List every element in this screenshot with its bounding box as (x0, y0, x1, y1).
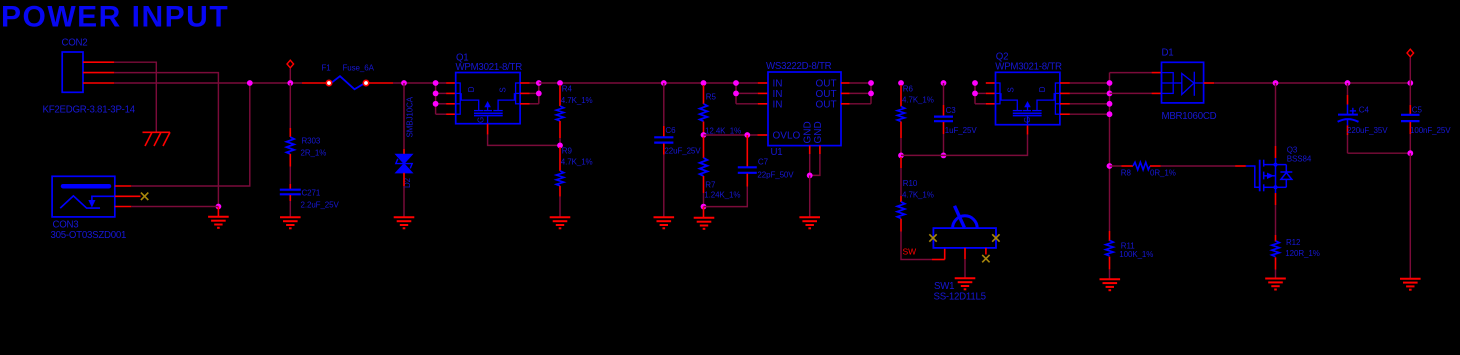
capacitor C271 (280, 184, 340, 210)
ground under R11 (1100, 279, 1121, 290)
wire fuse out red (369, 82, 394, 84)
svg-text:OUT: OUT (816, 89, 837, 100)
svg-text:R8: R8 (1121, 169, 1132, 178)
wire C4 bottom to C5 bottom (1348, 152, 1411, 154)
svg-text:SW1: SW1 (934, 281, 954, 292)
svg-text:GND: GND (803, 121, 814, 143)
svg-text:2R_1%: 2R_1% (301, 149, 327, 158)
svg-text:22pF_50V: 22pF_50V (757, 171, 794, 180)
svg-text:100K_1%: 100K_1% (1119, 250, 1153, 259)
svg-text:G: G (477, 117, 486, 123)
Q1 gate pin stub (487, 124, 489, 135)
svg-text:4.7K_1%: 4.7K_1% (561, 158, 593, 167)
power flag output (1407, 49, 1414, 57)
SW1 middle pin to ground (964, 248, 966, 259)
SW1 right pin no-connect (985, 248, 987, 255)
wire C5 bottom to ground (1409, 153, 1411, 278)
svg-text:305-OT03SZD001: 305-OT03SZD001 (51, 230, 127, 241)
svg-text:Q3: Q3 (1287, 146, 1298, 155)
resistor R11 (1106, 231, 1154, 279)
svg-text:120R_1%: 120R_1% (1285, 249, 1319, 258)
svg-text:R303: R303 (302, 137, 321, 146)
svg-text:WPM3021-8/TR: WPM3021-8/TR (456, 62, 523, 73)
U1 pin stubs right (841, 83, 850, 104)
node Q1 out (536, 80, 542, 86)
node output at C5 (1407, 80, 1413, 86)
resistor R5 (700, 85, 741, 136)
svg-text:MBR1060CD: MBR1060CD (1162, 111, 1217, 122)
node R7 bottom (701, 204, 707, 210)
svg-text:BSS84: BSS84 (1287, 155, 1312, 164)
CON3 pin 1 sleeve (115, 185, 132, 187)
ground under R12 (1265, 279, 1286, 290)
node R5/R7/OVLO (701, 132, 707, 138)
fuse F1 (322, 64, 375, 90)
CON3 pin 3 (115, 206, 132, 208)
wire U1 out vertical (850, 82, 871, 84)
svg-text:4.7K_1%: 4.7K_1% (561, 96, 593, 105)
svg-text:R6: R6 (903, 85, 914, 94)
svg-text:GND: GND (813, 121, 824, 143)
svg-text:R5: R5 (706, 93, 717, 102)
wire Q1 left feed vertical (435, 83, 437, 114)
CON3 pin 2 with no-connect (115, 195, 141, 197)
svg-text:D1: D1 (1162, 48, 1174, 59)
wire R10 to SW1 (901, 232, 932, 260)
wire flag stem to net (1409, 58, 1411, 84)
CON2 pin 1 (83, 61, 114, 63)
node U1 gnd (807, 173, 813, 179)
resistor R12 (1272, 235, 1320, 278)
resistor R6 (897, 85, 934, 156)
capacitor C5 (1401, 83, 1451, 153)
wire D2 to ground (403, 186, 405, 217)
node CON2pin2/CON3pin3/GND junction (216, 204, 222, 210)
wire to D1 pin2 (1110, 92, 1152, 94)
wire CON3 pin1 up to main net (131, 83, 250, 186)
svg-text:CON3: CON3 (53, 220, 79, 231)
svg-text:100nF_25V: 100nF_25V (1410, 126, 1451, 135)
ground under D2 (394, 217, 415, 228)
resistor R10 (897, 157, 934, 232)
svg-text:IN: IN (773, 89, 783, 100)
svg-text:OUT: OUT (816, 99, 837, 110)
svg-text:C7: C7 (758, 158, 769, 167)
wire CON2 pin1 to chassis (114, 62, 156, 131)
node C7 top (744, 132, 750, 138)
svg-text:0R_1%: 0R_1% (1150, 169, 1176, 178)
wire output net (1214, 82, 1410, 84)
resistor R4 (556, 85, 592, 146)
node R4/R9/gate (557, 143, 563, 149)
ground under R9 (550, 217, 571, 228)
wire main net red pin into fuse (302, 82, 327, 84)
svg-text:OVLO: OVLO (773, 131, 801, 142)
ground under R7 (694, 218, 715, 229)
resistor R8 0R (1110, 162, 1236, 177)
capacitor C4 polarized (1338, 83, 1389, 153)
wire Q1 gate to R4/R9 node (488, 135, 560, 146)
svg-text:SS-12D11L5: SS-12D11L5 (934, 292, 986, 303)
ground under C6 (654, 217, 675, 228)
no-connect X left of SW1 (929, 234, 936, 241)
wire D2 column (403, 83, 405, 149)
svg-text:2.2uF_25V: 2.2uF_25V (301, 201, 340, 210)
Q1 pin stubs right (520, 83, 529, 104)
svg-text:220uF_35V: 220uF_35V (1347, 126, 1388, 135)
Q2 pin stubs left (986, 83, 996, 104)
node output at Q3 (1273, 80, 1279, 86)
ground bottom right (1400, 279, 1421, 290)
diode D1 MBR1060CD (1162, 48, 1217, 123)
wire gnd node stem (217, 207, 219, 217)
svg-text:C5: C5 (1412, 106, 1423, 115)
node C3 bottom (941, 153, 947, 159)
Q1 pin stubs left (446, 83, 456, 114)
svg-text:R12: R12 (1286, 238, 1301, 247)
svg-text:U1: U1 (771, 147, 783, 158)
resistor R7 (700, 137, 741, 207)
svg-text:F1: F1 (322, 64, 332, 73)
svg-text:R4: R4 (562, 85, 573, 94)
node Q2 out column (1107, 80, 1113, 86)
transistor Q2 WPM3021-8/TR (995, 52, 1062, 125)
node R8 tap (1107, 163, 1113, 169)
svg-text:R9: R9 (562, 147, 573, 156)
chassis ground (143, 132, 171, 146)
resistor R303 (287, 137, 327, 158)
capacitor C7 (738, 135, 794, 187)
node R4 top (557, 80, 563, 86)
TVS diode D2 SMBJ10CA (396, 96, 415, 188)
svg-text:4.7K_1%: 4.7K_1% (902, 191, 934, 200)
capacitor C6 (654, 83, 701, 217)
svg-text:D: D (1038, 86, 1047, 92)
svg-text:12.4K_1%: 12.4K_1% (705, 127, 741, 136)
svg-text:1.24K_1%: 1.24K_1% (704, 191, 740, 200)
U1 GND pin stubs (809, 146, 811, 154)
node output at C4 (1345, 80, 1351, 86)
wire R7 to ground (703, 207, 705, 218)
svg-text:R10: R10 (903, 179, 918, 188)
svg-text:C271: C271 (302, 189, 321, 198)
svg-text:SMBJ10CA: SMBJ10CA (406, 96, 415, 137)
wire R303 to C271 (289, 167, 291, 185)
power flag VIN (287, 60, 294, 68)
node U1 out (868, 80, 874, 86)
wire Q2 out to main vertical (1070, 73, 1110, 231)
ground at CON node (208, 217, 229, 228)
CON2 pin 3 (83, 82, 114, 84)
node U1 in (733, 80, 739, 86)
transistor Q3 BSS84 (1246, 146, 1312, 192)
connector CON3 barrel jack (51, 176, 127, 241)
node Q1 in pins (433, 80, 439, 86)
wire Q3 source down (1275, 187, 1277, 193)
transistor Q1 WPM3021-8/TR (456, 53, 523, 124)
svg-text:C6: C6 (665, 126, 676, 135)
wire CON3 pin3 to gnd node (131, 206, 218, 208)
ground under SW1 (955, 278, 976, 289)
svg-text:C4: C4 (1359, 106, 1370, 115)
node C6 top (661, 80, 667, 86)
no-connect X right of SW1 (992, 234, 999, 241)
wire U1 left feed vertical (735, 83, 737, 104)
svg-text:SW: SW (903, 247, 917, 257)
svg-text:Fuse_6A: Fuse_6A (343, 64, 375, 73)
wire flag stem (289, 69, 291, 84)
CON2 pin 2 (83, 72, 114, 74)
svg-text:KF2EDGR-3.81-3P-14: KF2EDGR-3.81-3P-14 (43, 105, 136, 116)
D1 output pin stub (1204, 82, 1215, 84)
resistor R303 column wire (289, 83, 291, 128)
ground under C271 (280, 217, 301, 228)
wire CON2 pin2 to gnd node (114, 73, 218, 207)
svg-text:S: S (498, 87, 507, 92)
wire fuse to Q1 (393, 82, 446, 84)
wire U1 GND join (809, 154, 811, 175)
svg-text:WPM3021-8/TR: WPM3021-8/TR (995, 62, 1062, 73)
wire Q3 drain up to output net (1275, 83, 1277, 146)
op-amp U1 WS3222D-8/TR (766, 61, 841, 158)
node main net at D2 (401, 80, 407, 86)
svg-text:C3: C3 (946, 106, 957, 115)
wire Q1 right collect vertical (530, 82, 539, 84)
svg-text:R7: R7 (705, 181, 716, 190)
wire C271 to ground (289, 201, 291, 217)
Q2 pin stubs right (1060, 83, 1070, 114)
wire OVLO line (704, 134, 758, 136)
svg-text:4.7K_1%: 4.7K_1% (902, 96, 934, 105)
ground under U1 (799, 217, 820, 228)
wire C7 bottom to R7 bottom (704, 187, 748, 207)
resistor R9 (556, 147, 592, 218)
wire Q2 left feed vertical (974, 83, 976, 104)
wire Q2 gate line (901, 135, 1028, 156)
U1 pin stubs left (758, 83, 769, 135)
wire U1 gnd stem (809, 175, 811, 217)
connector CON2 (43, 38, 136, 116)
capacitor C3 (934, 83, 977, 155)
node C5 bottom (1407, 150, 1413, 156)
svg-text:22uF_25V: 22uF_25V (664, 147, 701, 156)
svg-text:IN: IN (773, 99, 783, 110)
switch SW1 SS-12D11L5 (933, 206, 996, 303)
node main net at x250 (247, 80, 253, 86)
node Q2 in (972, 80, 978, 86)
svg-text:CON2: CON2 (62, 38, 88, 49)
node R6 top (898, 80, 904, 86)
svg-text:D: D (467, 86, 476, 92)
wire CON2 pin3 to fuse (main net) (114, 82, 302, 84)
svg-text:G: G (1023, 117, 1032, 123)
svg-text:OUT: OUT (816, 79, 837, 90)
svg-text:POWER INPUT: POWER INPUT (1, 1, 229, 34)
svg-text:WS3222D-8/TR: WS3222D-8/TR (766, 61, 832, 72)
node R5 top (701, 80, 707, 86)
svg-text:S: S (1006, 87, 1015, 92)
node C3 top (941, 80, 947, 86)
node R6/R10/gateline (898, 153, 904, 159)
svg-text:IN: IN (773, 79, 783, 90)
svg-text:1uF_25V: 1uF_25V (945, 126, 978, 135)
node main net at x290 (287, 80, 293, 86)
wire to D1 pin1 (1110, 72, 1152, 74)
wire main net Q1 to U1 (539, 82, 758, 84)
Q2 gate pin stub (1027, 125, 1029, 135)
Q3 gate pin stub (1235, 165, 1246, 167)
